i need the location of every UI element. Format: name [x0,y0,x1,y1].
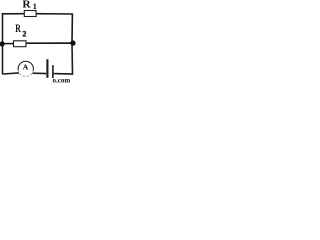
svg-text:o.com: o.com [53,77,71,84]
ammeter: bottom arc (faint, broken in scan) [18,70,33,76]
wire: middle branch left [3,43,14,45]
wire: left border + top-left segment of loop [3,14,25,44]
resistor R1 [24,11,36,17]
resistor R2 [14,41,27,47]
wire: left border lower part + bottom wire to ammeter [3,44,20,74]
svg-text:A: A [23,63,29,72]
svg-text:2: 2 [22,30,26,39]
svg-text:R: R [15,23,21,35]
battery plate right (short) [52,65,54,78]
svg-text:1: 1 [33,1,37,11]
wire: middle branch right [26,42,72,44]
wire: top-right segment + right border down to middle node [36,14,73,43]
wire: ammeter to battery [33,72,47,74]
battery plate left (long) [46,59,48,78]
wire: battery to bottom-right corner + right border up to node [54,43,73,74]
node: left junction dot [0,41,5,46]
node: right junction dot [70,40,75,45]
svg-text:R: R [22,0,31,10]
ammeter U: circle top arc (solid) [18,61,33,70]
